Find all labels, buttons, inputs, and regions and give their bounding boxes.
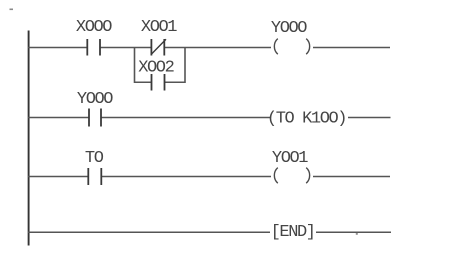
svg-text:YOOO: YOOO xyxy=(77,90,113,109)
svg-text:YOOO: YOOO xyxy=(271,19,307,38)
svg-text:XOO2: XOO2 xyxy=(138,59,173,78)
svg-text:TO: TO xyxy=(85,149,104,168)
svg-text:XOOO: XOOO xyxy=(76,18,112,37)
svg-text:(TO K1OO): (TO K1OO) xyxy=(267,110,346,129)
svg-text:[END]: [END] xyxy=(271,223,315,242)
svg-text:XOO1: XOO1 xyxy=(141,18,177,37)
svg-text:YOO1: YOO1 xyxy=(272,149,308,168)
